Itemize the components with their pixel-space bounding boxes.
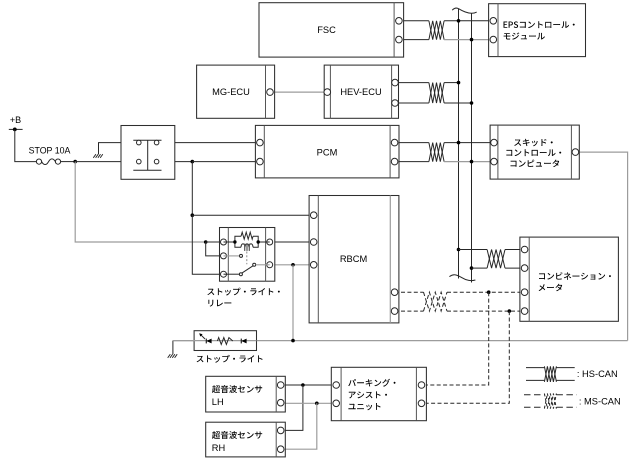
wire relay K1 output to RBCM pin 3 <box>270 264 314 266</box>
wire FSC to EPS CAN-H <box>399 20 429 22</box>
junction bus2 meter <box>470 266 474 270</box>
svg-text:: MS-CAN: : MS-CAN <box>579 397 621 407</box>
svg-text:RBCM: RBCM <box>340 254 367 264</box>
wire RBCM to meter MS-CAN 2 (dashed) <box>395 310 424 312</box>
wire stop light run (ground to skid computer) <box>173 340 628 342</box>
wire switch S1 contact to ground G1 <box>99 143 139 155</box>
stop light diode D2 <box>241 339 246 344</box>
svg-text:MG-ECU: MG-ECU <box>212 87 250 97</box>
junction bus2 HEV <box>470 101 474 105</box>
wire junction A down to junction C (coil feed) <box>75 162 206 242</box>
wire fuse to junction A <box>61 161 76 163</box>
twisted pair PCM-skid <box>429 143 444 162</box>
svg-text:STOP 10A: STOP 10A <box>29 146 71 156</box>
wire PCM to skid computer CAN-L <box>395 161 429 163</box>
module U8 combination meter <box>520 237 619 321</box>
junction G <box>301 383 305 387</box>
HS-CAN bus line 2 <box>471 13 473 282</box>
svg-text:: HS-CAN: : HS-CAN <box>577 369 618 379</box>
relay K1 stop light relay <box>220 228 275 282</box>
ground G2 <box>168 354 178 358</box>
module U4 PCM <box>255 125 399 177</box>
junction D <box>191 213 195 217</box>
junction A (fuse output) <box>73 160 77 164</box>
ground G1 <box>93 154 103 158</box>
twisted pair HEV-ECU <box>429 83 444 103</box>
wire switch S1 to junction B <box>157 161 193 163</box>
node +B battery terminal <box>9 115 23 131</box>
HS-CAN bus line 1 <box>458 9 460 279</box>
junction coil left <box>233 240 236 243</box>
module U1 FSC <box>259 3 404 57</box>
relay K1 actuation dashed link <box>246 252 248 265</box>
legend MS-CAN symbol <box>524 394 577 409</box>
wire junction D down to relay K1 common pin <box>192 215 223 274</box>
wire junction C to relay K1 coil pin <box>206 241 224 243</box>
wire relay K1 coil to RBCM pin 2 <box>270 241 314 243</box>
legend MS-CAN text <box>579 397 621 407</box>
module U2 MG-ECU <box>197 65 275 118</box>
wire MG-ECU to HEV-ECU <box>270 91 327 93</box>
lamp E1 stop light <box>173 331 257 351</box>
junction coil right <box>257 240 260 243</box>
junction bus1 FSC <box>457 19 461 23</box>
stop light resistor <box>217 338 232 345</box>
svg-text:+B: +B <box>10 115 21 125</box>
wire +B to fuse <box>15 129 37 161</box>
relay K1 coil inductor <box>235 242 270 251</box>
legend HS-CAN symbol <box>526 366 575 382</box>
switch S1 stop lamp switch <box>121 126 175 180</box>
label relay K1 <box>207 288 279 307</box>
module U6 skid control computer <box>490 125 579 179</box>
stop light diode D1 <box>206 339 211 344</box>
relay K1 contact common and blade <box>224 263 270 275</box>
wire MS-CAN 2 to parking assist (dashed) <box>422 311 510 403</box>
junction bus1 meter <box>457 248 461 252</box>
wire HEV-ECU CAN-H to bus <box>395 82 429 84</box>
wire junction C to relay K1 contact pin <box>206 242 224 256</box>
wire junction A to switch S1 <box>75 161 139 163</box>
legend HS-CAN text <box>577 369 618 379</box>
wire RBCM to meter MS-CAN 1 (dashed) <box>395 291 424 293</box>
module U9 parking assist unit <box>331 367 426 420</box>
svg-text:PCM: PCM <box>317 147 338 157</box>
svg-text:RH: RH <box>212 443 225 453</box>
wire junction D to RBCM pin 1 <box>192 214 313 216</box>
junction C <box>204 240 208 244</box>
junction F <box>291 339 295 343</box>
wire skid computer to stop light run <box>575 152 627 341</box>
wire bus to meter CAN-H <box>459 249 488 251</box>
svg-text:FSC: FSC <box>317 25 336 35</box>
wire junction H to sensor RH 2 <box>281 403 317 449</box>
bus twist mark top <box>452 8 477 13</box>
bus twist mark bottom <box>449 275 475 281</box>
junction bus2 FSC <box>470 38 474 42</box>
wire stop light to ground G2 <box>172 341 174 355</box>
relay K1 coil resistor <box>224 232 259 242</box>
wire sensor LH to parking assist 1 <box>281 384 337 386</box>
wire junction G to sensor RH 1 <box>281 385 303 430</box>
junction MS-CAN 1 <box>487 290 491 294</box>
sensor B1 ultrasonic LH <box>206 376 286 412</box>
junction H <box>315 402 319 406</box>
wire sensor LH to parking assist 2 <box>281 402 337 404</box>
wire junction B down to junction D <box>191 162 193 216</box>
twisted pair FSC-EPS <box>429 21 444 40</box>
junction MS-CAN 2 <box>508 309 512 313</box>
relay K1 contact NO <box>224 254 243 257</box>
wire switch S1 to PCM top pin <box>157 142 260 144</box>
stop light LED arrow <box>199 333 205 339</box>
wire junction E down to stop light <box>292 265 294 341</box>
module U7 RBCM <box>309 196 399 323</box>
module U5 EPS control module <box>489 4 586 57</box>
wire FSC to EPS CAN-L <box>399 39 429 41</box>
junction bus2 PCM <box>470 160 474 164</box>
twisted pair bus-meter <box>487 250 505 269</box>
svg-text:HEV-ECU: HEV-ECU <box>340 87 381 97</box>
module U3 HEV-ECU <box>324 65 399 118</box>
sensor B2 ultrasonic RH <box>206 422 286 457</box>
junction bus1 PCM <box>457 141 461 145</box>
wire MS-CAN 1 to parking assist (dashed) <box>422 292 489 385</box>
wire junction B to PCM pin <box>192 161 260 163</box>
wire PCM to skid computer CAN-H <box>395 142 429 144</box>
wire HEV-ECU CAN-L to bus <box>395 102 429 104</box>
wire bus to meter CAN-L <box>472 267 488 269</box>
label stop light <box>197 355 263 363</box>
junction bus1 HEV <box>457 81 461 85</box>
twisted pair RBCM-meter (MS-CAN) <box>424 292 448 311</box>
fuse F1 STOP 10A <box>29 146 71 165</box>
svg-text:LH: LH <box>212 397 224 407</box>
junction E (stop light feed) <box>291 263 295 267</box>
junction B <box>191 160 195 164</box>
